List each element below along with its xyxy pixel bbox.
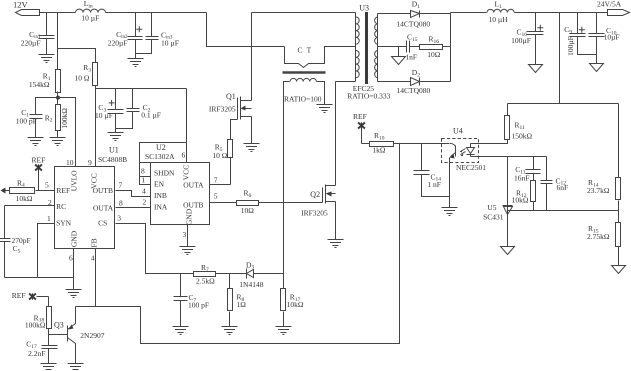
svg-text:1Ω: 1Ω [237, 300, 247, 309]
svg-text:100 pF: 100 pF [188, 301, 209, 310]
svg-text:U2: U2 [156, 143, 166, 152]
svg-text:2: 2 [143, 198, 147, 207]
svg-text:RATIO=0.333: RATIO=0.333 [347, 91, 390, 100]
svg-text:REF: REF [12, 291, 26, 300]
svg-text:10 µF: 10 µF [95, 111, 113, 120]
svg-text:10µF: 10µF [604, 33, 620, 42]
svg-text:INB: INB [154, 191, 167, 200]
svg-text:100µF: 100µF [566, 36, 575, 56]
svg-text:1: 1 [47, 214, 51, 223]
svg-text:4: 4 [91, 253, 95, 262]
svg-text:SC4808B: SC4808B [98, 155, 127, 164]
svg-text:7: 7 [119, 181, 123, 190]
svg-text:RATIO=100: RATIO=100 [284, 95, 322, 104]
svg-text:5: 5 [45, 181, 49, 190]
svg-text:U1: U1 [109, 146, 119, 155]
svg-text:REF: REF [56, 186, 70, 195]
svg-text:154kΩ: 154kΩ [29, 80, 50, 89]
svg-text:2.2nF: 2.2nF [28, 349, 45, 358]
svg-text:14CTQ080: 14CTQ080 [396, 20, 430, 29]
svg-text:REF: REF [353, 112, 367, 121]
svg-text:2N2907: 2N2907 [80, 331, 104, 340]
svg-text:10: 10 [66, 158, 74, 167]
svg-text:10Ω: 10Ω [427, 50, 441, 59]
svg-text:U5: U5 [487, 203, 496, 212]
svg-text:10Ω: 10Ω [241, 206, 255, 215]
svg-text:OUTA: OUTA [93, 203, 114, 212]
svg-text:8: 8 [141, 166, 145, 175]
svg-text:9: 9 [88, 158, 92, 167]
svg-text:2: 2 [48, 198, 52, 207]
svg-text:CS: CS [98, 219, 107, 228]
svg-text:IRF3205: IRF3205 [209, 105, 236, 114]
svg-text:10kΩ: 10kΩ [512, 196, 529, 205]
svg-text:220µF: 220µF [21, 39, 41, 48]
svg-text:Q3: Q3 [54, 321, 64, 330]
svg-text:6nF: 6nF [557, 183, 569, 192]
svg-text:12V: 12V [13, 0, 29, 9]
svg-text:220µF: 220µF [108, 39, 128, 48]
svg-text:10 µF: 10 µF [161, 39, 179, 48]
svg-text:SHDN: SHDN [154, 168, 175, 177]
svg-text:VCC: VCC [182, 165, 191, 180]
svg-text:4: 4 [142, 186, 146, 195]
svg-text:7: 7 [214, 176, 218, 185]
svg-text:C T: C T [298, 45, 313, 54]
svg-text:UVLO: UVLO [70, 170, 79, 191]
svg-text:NEC2501: NEC2501 [456, 163, 486, 172]
svg-text:3: 3 [117, 214, 121, 223]
svg-text:14CTQ080: 14CTQ080 [397, 86, 431, 95]
svg-text:100kΩ: 100kΩ [25, 321, 46, 330]
svg-text:U4: U4 [453, 126, 463, 135]
svg-text:100kΩ: 100kΩ [60, 108, 69, 129]
svg-text:16nF: 16nF [514, 174, 529, 183]
svg-text:U3: U3 [359, 4, 369, 13]
svg-text:150kΩ: 150kΩ [512, 131, 533, 140]
svg-text:1 nF: 1 nF [427, 180, 441, 189]
svg-text:0.1 µF: 0.1 µF [141, 110, 161, 119]
svg-text:10 Ω: 10 Ω [212, 151, 227, 160]
svg-text:3: 3 [183, 230, 187, 239]
svg-text:SYN: SYN [56, 219, 72, 228]
svg-text:100 pF: 100 pF [16, 117, 37, 126]
svg-text:REF: REF [32, 156, 46, 165]
svg-text:SC1302A: SC1302A [145, 152, 175, 161]
svg-text:EN: EN [154, 180, 165, 189]
svg-text:GND: GND [70, 230, 79, 247]
svg-text:OUTB: OUTB [183, 201, 203, 210]
svg-text:1: 1 [142, 176, 146, 185]
svg-text:10 µF: 10 µF [81, 13, 99, 22]
svg-text:Q1: Q1 [226, 92, 236, 101]
svg-text:10 µH: 10 µH [489, 15, 509, 24]
svg-text:2.5kΩ: 2.5kΩ [196, 276, 215, 285]
svg-text:GND: GND [185, 208, 194, 225]
svg-text:24V/5A: 24V/5A [597, 0, 622, 9]
svg-text:23.7kΩ: 23.7kΩ [587, 186, 610, 195]
svg-text:6: 6 [69, 253, 73, 262]
svg-text:1nF: 1nF [405, 53, 417, 62]
svg-text:OUTA: OUTA [183, 181, 204, 190]
svg-text:6: 6 [182, 151, 186, 160]
svg-text:SC431: SC431 [483, 213, 504, 222]
svg-text:100µF: 100µF [511, 36, 531, 45]
svg-text:IRF3205: IRF3205 [301, 209, 328, 218]
svg-text:INA: INA [154, 202, 168, 211]
svg-text:5: 5 [214, 192, 218, 201]
svg-text:1kΩ: 1kΩ [372, 145, 386, 154]
svg-text:FB: FB [90, 238, 99, 247]
svg-text:RC: RC [56, 202, 66, 211]
svg-text:10kΩ: 10kΩ [16, 194, 33, 203]
svg-text:VCC: VCC [90, 173, 99, 188]
svg-text:2.75kΩ: 2.75kΩ [587, 232, 610, 241]
svg-text:10 Ω: 10 Ω [75, 74, 90, 83]
svg-text:1N4148: 1N4148 [239, 280, 263, 289]
svg-text:10kΩ: 10kΩ [287, 300, 304, 309]
svg-text:8: 8 [119, 198, 123, 207]
svg-text:Q2: Q2 [310, 190, 320, 199]
